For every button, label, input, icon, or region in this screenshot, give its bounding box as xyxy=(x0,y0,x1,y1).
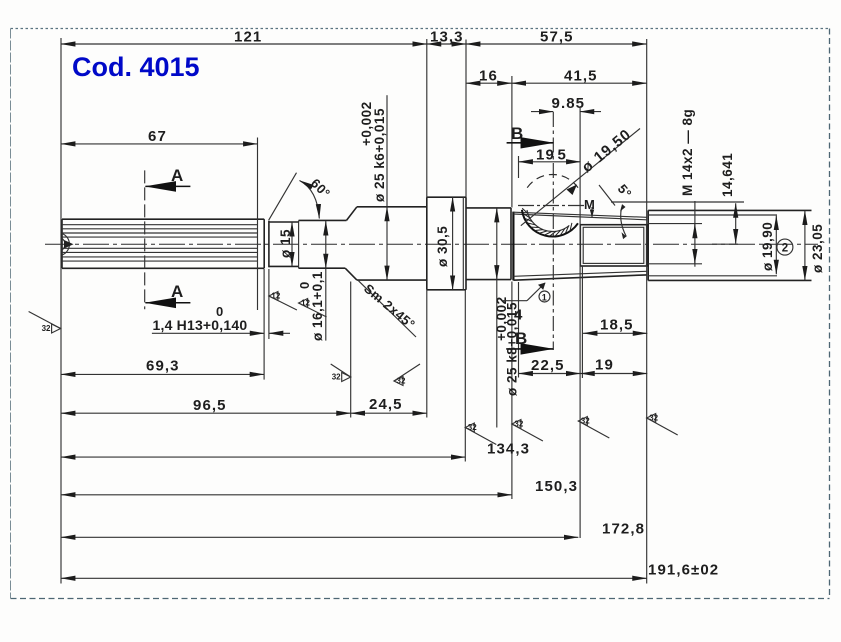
dim diameter 23,05 xyxy=(804,211,806,281)
svg-text:2: 2 xyxy=(782,243,788,255)
svg-text:121: 121 xyxy=(234,29,262,46)
diameter 25k6 section xyxy=(357,206,427,208)
chamfer 2x45 xyxy=(347,207,357,221)
ext line x518.5 upper xyxy=(518,156,520,178)
ext line x511.9 upper xyxy=(511,76,513,208)
svg-text:32: 32 xyxy=(468,423,477,432)
dim 18,5 xyxy=(583,332,647,334)
dim 24,5 xyxy=(351,412,427,414)
svg-text:19: 19 xyxy=(595,357,614,374)
flange 30,5 xyxy=(426,197,428,290)
dim 69,3 xyxy=(61,373,264,375)
roughness symbol at x350 xyxy=(342,373,351,382)
svg-text:172,8: 172,8 xyxy=(602,521,645,538)
ext line x511.9 lower xyxy=(511,282,513,500)
svg-text:13,3: 13,3 xyxy=(430,29,464,46)
sphere seat solid lower arc xyxy=(522,210,578,237)
page border top xyxy=(11,28,830,30)
dim diameter 15 xyxy=(291,222,293,266)
svg-text:24,5: 24,5 xyxy=(369,396,403,413)
sphere seat inner arc xyxy=(527,210,569,231)
dim diameter 16,1 xyxy=(325,221,327,268)
svg-text:60°: 60° xyxy=(308,176,334,202)
roughness symbol near groove 2 xyxy=(299,299,308,308)
thread root lines xyxy=(648,223,702,225)
svg-text:191,6±02: 191,6±02 xyxy=(648,562,719,579)
center drill detail at left end xyxy=(62,234,69,256)
shaft centerline xyxy=(45,243,818,245)
svg-text:ø 19,90: ø 19,90 xyxy=(760,222,775,271)
dim M 14x2 - 8g xyxy=(694,201,696,267)
ext line x466 upper xyxy=(465,40,467,198)
keyway left edge lower double xyxy=(581,266,583,378)
svg-text:9.85: 9.85 xyxy=(552,95,586,112)
ext line x646.7 xyxy=(646,39,648,584)
svg-text:1: 1 xyxy=(542,293,547,303)
roughness symbol at x465 xyxy=(465,423,474,432)
section line B-B xyxy=(552,112,554,350)
svg-text:A: A xyxy=(171,282,183,301)
ext line x268.9 xyxy=(268,269,270,339)
svg-text:69,3: 69,3 xyxy=(146,358,180,375)
section arrow A top xyxy=(145,185,190,187)
roughness symbol at x647 xyxy=(647,414,656,423)
dim 67 xyxy=(61,143,258,145)
svg-text:96,5: 96,5 xyxy=(193,397,227,414)
svg-text:ø 19,50: ø 19,50 xyxy=(579,126,635,176)
section end face at 648 xyxy=(647,210,649,280)
svg-text:+0,002: +0,002 xyxy=(359,101,374,146)
dim 22,5 xyxy=(519,373,581,375)
svg-text:57,5: 57,5 xyxy=(540,29,574,46)
spline teeth lines xyxy=(62,224,258,226)
taper section top lines xyxy=(513,212,646,217)
diameter 25k8 section xyxy=(466,207,511,209)
dim 121 xyxy=(61,43,427,45)
svg-text:22,5: 22,5 xyxy=(531,357,565,374)
svg-text:32: 32 xyxy=(649,414,658,423)
ext line x264.1 xyxy=(263,269,265,380)
dim diameter 19,90 xyxy=(775,216,777,275)
svg-text:16: 16 xyxy=(479,68,498,85)
ext line x61 xyxy=(60,38,62,584)
section arrow B bottom xyxy=(506,348,553,350)
svg-text:19: 19 xyxy=(536,147,555,164)
dim diameter 30,5 xyxy=(452,197,454,290)
svg-text:1,4 H13+0,140: 1,4 H13+0,140 xyxy=(153,317,248,333)
diameter 16,1 section xyxy=(299,219,347,221)
svg-text:B: B xyxy=(511,124,523,143)
spline section outer edges xyxy=(62,218,264,220)
svg-text:32: 32 xyxy=(581,417,590,426)
dim 134,3 xyxy=(61,456,465,458)
page border right xyxy=(829,29,831,599)
roughness symbol at x61 xyxy=(52,324,61,333)
section arrow A bottom xyxy=(145,302,190,304)
svg-text:4: 4 xyxy=(514,307,523,324)
svg-text:ø 15: ø 15 xyxy=(278,229,293,258)
svg-text:32: 32 xyxy=(332,373,341,382)
dim diameter 25 k8 xyxy=(496,208,498,280)
diameter 15 section xyxy=(269,221,299,223)
dim 172,8 xyxy=(61,536,578,538)
dim 57,5 xyxy=(466,43,647,45)
ext line x518.5 lower xyxy=(518,282,520,378)
svg-text:41,5: 41,5 xyxy=(564,68,598,85)
dim 60 deg cone angle xyxy=(269,173,297,221)
dim 14,641 xyxy=(611,201,744,203)
svg-text:ø 25 k6+0,015: ø 25 k6+0,015 xyxy=(372,108,387,202)
dim 150,3 xyxy=(61,494,512,496)
roughness symbol free near 24,5 xyxy=(394,377,403,386)
svg-text:0: 0 xyxy=(216,304,223,319)
ext line x426.8 upper xyxy=(426,39,428,197)
ext line x580 xyxy=(579,108,581,538)
svg-text:M 14x2 — 8g: M 14x2 — 8g xyxy=(680,109,695,196)
svg-text:A: A xyxy=(171,166,183,185)
dim 1,4 H13+0,140 xyxy=(152,332,264,334)
roughness symbol at x512 xyxy=(512,420,521,429)
ext line x350.7 xyxy=(350,282,352,418)
svg-text:ø 16,1+0,1: ø 16,1+0,1 xyxy=(310,271,325,341)
sphere seat hatching xyxy=(522,208,572,236)
dim 13,3 xyxy=(427,43,466,45)
shoulder face xyxy=(510,208,512,280)
svg-text:5: 5 xyxy=(558,147,567,164)
dim 19,5 xyxy=(519,161,581,163)
section line A-A xyxy=(144,170,146,309)
balloon 2 xyxy=(777,239,793,255)
svg-text:32: 32 xyxy=(42,324,51,333)
section arrow B top xyxy=(507,142,554,144)
groove 1,4 walls xyxy=(263,219,265,268)
dim 41,5 xyxy=(512,82,647,84)
svg-text:Sm 2x45°: Sm 2x45° xyxy=(361,281,418,332)
sphere horizontal centerline xyxy=(518,205,587,207)
dim 96,5 xyxy=(61,412,351,414)
svg-text:5°: 5° xyxy=(615,181,635,201)
svg-text:0: 0 xyxy=(297,282,312,289)
svg-text:150,3: 150,3 xyxy=(535,478,578,495)
dim diameter 25 k6 xyxy=(386,95,388,206)
taper 5 deg callout xyxy=(599,185,615,206)
keyway slot outer rect xyxy=(580,225,646,266)
keyway slot inner rect xyxy=(583,227,644,263)
svg-text:18,5: 18,5 xyxy=(600,317,634,334)
taper section bottom lines xyxy=(513,271,646,276)
right section outer/inner lines xyxy=(648,209,811,211)
svg-text:14,641: 14,641 xyxy=(720,153,735,197)
roughness symbol near groove 1 xyxy=(269,292,278,301)
leader diameter 19,50 xyxy=(521,129,640,226)
svg-text:+0,002: +0,002 xyxy=(494,296,509,341)
chamfer leader Sm 2x45 xyxy=(359,281,417,337)
svg-text:32: 32 xyxy=(514,420,523,429)
svg-text:Cod. 4015: Cod. 4015 xyxy=(72,52,200,82)
page border bottom xyxy=(11,598,830,600)
ext line x257.5 xyxy=(257,138,259,311)
roughness symbol at x578 xyxy=(578,417,587,426)
ext line x465.3 lower xyxy=(464,290,466,462)
dim 19 xyxy=(580,373,647,375)
svg-text:67: 67 xyxy=(148,128,167,145)
dim 191,6+-02 xyxy=(61,577,647,579)
ext line x496.8 xyxy=(496,280,498,428)
sphere seat dashed upper arc xyxy=(527,174,578,187)
dim 9.85 xyxy=(531,111,553,113)
dim 16 xyxy=(466,82,512,84)
ext line x426.8 lower xyxy=(426,290,428,418)
svg-text:ø 23,05: ø 23,05 xyxy=(810,224,825,273)
page border left xyxy=(10,29,12,599)
svg-text:ø 30,5: ø 30,5 xyxy=(435,226,450,267)
dim 4 with leader and balloon 1 xyxy=(503,300,527,302)
